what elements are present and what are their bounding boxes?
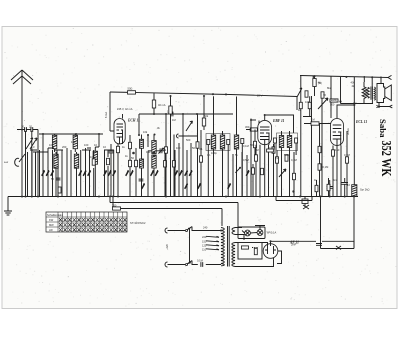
- svg-text:Spr 2kΩ: Spr 2kΩ: [360, 188, 369, 192]
- svg-text:0,2: 0,2: [275, 156, 279, 160]
- svg-text:2mF: 2mF: [291, 243, 297, 247]
- cathode resistor R12: [255, 155, 258, 161]
- transformer core: [228, 226, 230, 267]
- resistor R18b: [299, 102, 302, 108]
- svg-text:10k: 10k: [143, 130, 148, 134]
- ground bus wire: [8, 196, 358, 198]
- secondary heater winding: [232, 228, 242, 235]
- svg-text:100: 100: [84, 143, 89, 147]
- svg-text:LW: LW: [49, 228, 53, 232]
- padder capacitor C3: [51, 177, 60, 181]
- switch table: [46, 212, 127, 232]
- svg-text:ECL 11: ECL 11: [355, 120, 367, 124]
- IF transformer 2 box: [277, 133, 298, 151]
- svg-text:30mA: 30mA: [346, 128, 350, 135]
- resistor R6: [173, 135, 175, 197]
- svg-text:50p: 50p: [250, 143, 255, 147]
- svg-text:200: 200: [62, 145, 67, 149]
- svg-text:MW: MW: [49, 223, 54, 227]
- switch S2: [297, 88, 302, 97]
- svg-text:ST=1157HK2: ST=1157HK2: [130, 221, 146, 225]
- rectifier AZ11: [263, 244, 278, 259]
- resistor R29: [252, 168, 255, 174]
- AVC resistor R9: [196, 142, 199, 148]
- svg-text:220: 220: [202, 235, 207, 239]
- svg-text:EBF 11: EBF 11: [272, 119, 285, 123]
- svg-text:0,1: 0,1: [199, 147, 203, 151]
- svg-text:150: 150: [335, 148, 340, 152]
- dial lamp 2: [257, 230, 263, 236]
- dial lamp 1: [245, 230, 251, 236]
- wires left tops: [30, 134, 114, 152]
- svg-text:110: 110: [202, 248, 207, 252]
- verticals before EBF: [233, 119, 251, 197]
- svg-text:40k: 40k: [351, 81, 356, 85]
- svg-text:(E): (E): [353, 101, 357, 105]
- left coil L2: [54, 154, 58, 168]
- svg-text:ECH 11: ECH 11: [127, 119, 140, 123]
- resistor R10b: [200, 156, 203, 162]
- resistor R24: [346, 157, 349, 163]
- antenna lead wire: [21, 70, 23, 197]
- resistor R27 in box: [242, 246, 249, 249]
- IF1 primary coil L9: [211, 135, 215, 149]
- svg-text:100: 100: [305, 100, 310, 104]
- hum pot box: [238, 243, 262, 260]
- wire verticals mid: [175, 114, 191, 197]
- oscillator coil L7: [140, 159, 144, 168]
- antenna: [11, 70, 33, 84]
- rectifier anode feed: [235, 243, 274, 267]
- svg-text:100p: 100p: [269, 146, 275, 150]
- svg-text:100: 100: [49, 143, 54, 147]
- svg-text:100: 100: [53, 140, 58, 144]
- svg-text:4m: 4m: [333, 178, 337, 182]
- field coil zigzag: [362, 82, 366, 102]
- resistor R16: [313, 79, 321, 87]
- svg-text:300: 300: [245, 125, 250, 129]
- svg-text:245 V, 42 mA: 245 V, 42 mA: [117, 107, 133, 111]
- antenna capacitor C2: [28, 127, 35, 132]
- svg-text:100: 100: [146, 150, 151, 154]
- resistor R15: [285, 155, 288, 161]
- sub-bus wires below ground bus: [110, 197, 238, 228]
- resistor R17: [305, 91, 308, 97]
- svg-text:500: 500: [330, 103, 335, 107]
- IF2 coil L14: [287, 136, 291, 148]
- resistor R4: [129, 142, 132, 148]
- fuse X: [336, 246, 341, 250]
- resistor R7: [165, 147, 168, 153]
- svg-text:125: 125: [202, 244, 207, 248]
- svg-text:100: 100: [176, 146, 181, 150]
- resistor R2 dropping: [152, 100, 155, 108]
- EBF wiring loop to IF2: [265, 115, 294, 133]
- svg-text:8k2: 8k2: [327, 86, 332, 90]
- resistor R1 on rail: [128, 86, 136, 94]
- grid resistor R23: [318, 164, 328, 170]
- wire rail to tube: [110, 92, 114, 131]
- oscillator coil L6: [140, 139, 144, 148]
- left coil group L1: [52, 135, 56, 148]
- resistor R18: [321, 92, 324, 98]
- speaker: [377, 84, 385, 103]
- switch lever S1: [15, 154, 25, 166]
- speaker bottom wires: [341, 100, 390, 107]
- resistor R11: [250, 128, 257, 131]
- ECL leads: [333, 105, 354, 197]
- oscillator coil L8: [152, 141, 156, 154]
- resistor R33: [92, 159, 95, 165]
- resistor R32: [327, 184, 330, 190]
- resistor R8: [169, 106, 172, 114]
- resistor R13: [272, 147, 275, 153]
- svg-text:KW: KW: [49, 218, 54, 222]
- svg-text:100: 100: [71, 140, 76, 144]
- svg-text:0,1M: 0,1M: [243, 144, 249, 148]
- left coil L4: [74, 154, 78, 168]
- resistor R14: [276, 157, 279, 163]
- mains switch: [186, 230, 188, 232]
- svg-text:500: 500: [186, 138, 191, 142]
- wire drop from screen rail: [138, 114, 140, 135]
- wire below bus right: [276, 197, 312, 201]
- left coil L3: [73, 135, 77, 148]
- resistor R20 horizontal: [311, 118, 319, 126]
- svg-text:1M: 1M: [311, 118, 315, 122]
- wire tube anode up: [122, 114, 124, 119]
- wires left band section verticals: [28, 134, 114, 197]
- output stage top: vertical line: [353, 77, 355, 197]
- svg-text:40 mA: 40 mA: [158, 103, 166, 107]
- svg-text:1M: 1M: [255, 148, 259, 152]
- svg-text:6P/0,1A: 6P/0,1A: [267, 231, 276, 235]
- cathode resistor R21: [332, 150, 335, 156]
- secondary HT winding: [232, 243, 235, 267]
- mains cap C9: [201, 262, 203, 267]
- svg-text:0,1M: 0,1M: [291, 158, 297, 162]
- resistor R12b: [267, 149, 274, 152]
- IF2 coil L13: [279, 136, 283, 148]
- right bottom choke: [352, 185, 357, 197]
- svg-text:6 mA: 6 mA: [104, 112, 108, 118]
- resistor R25: [315, 185, 318, 191]
- svg-text:352 WK: 352 WK: [378, 141, 393, 177]
- svg-text:250: 250: [112, 204, 117, 208]
- tube ECH11 U1: [114, 119, 125, 145]
- resistor R2b: [58, 187, 61, 193]
- svg-text:Schaltkontakt: Schaltkontakt: [47, 213, 63, 217]
- IF2a detector coil L11: [234, 135, 238, 149]
- vertical from 28V network: [297, 76, 331, 197]
- IF2 trim caps: [273, 138, 276, 143]
- left coil L5: [93, 151, 97, 164]
- resistor R5: [129, 160, 132, 166]
- volume pot arrow: [235, 167, 240, 173]
- dial lamp box: [238, 227, 265, 239]
- resistor R19: [330, 99, 338, 102]
- plug arcs: [165, 228, 168, 267]
- wire node antenna row: [17, 130, 38, 197]
- svg-text:Saba: Saba: [378, 119, 388, 138]
- arrow connector top right: [388, 75, 392, 79]
- grid capacitor C5: [109, 151, 114, 153]
- resistor R28 in box: [254, 248, 257, 254]
- switch contacts row left: [42, 170, 45, 176]
- junction dot g1: [250, 119, 252, 121]
- resistor R26 250ohm: [113, 207, 121, 210]
- svg-text:~220: ~220: [165, 244, 169, 250]
- svg-text:5000: 5000: [284, 153, 290, 157]
- svg-text:150: 150: [202, 240, 207, 244]
- svg-text:a-w: a-w: [4, 161, 8, 164]
- connector X bottom right: [377, 105, 393, 108]
- antenna trimmer capacitor C1: [22, 127, 29, 132]
- IF1 trim caps: [207, 140, 210, 145]
- heater loop: [242, 235, 282, 264]
- padder capacitor C4: [139, 179, 144, 181]
- rectifier output wire: [271, 241, 355, 248]
- table X marks: [59, 218, 126, 231]
- svg-text:1M: 1M: [172, 118, 176, 122]
- output transformer primary: [371, 87, 372, 100]
- svg-text:28 V: 28 V: [257, 93, 263, 97]
- lamp wires: [242, 226, 265, 234]
- screen rail wire: [139, 113, 233, 115]
- svg-text:240: 240: [203, 226, 208, 230]
- resistor R11b: [254, 141, 257, 147]
- resistor R34: [107, 158, 110, 164]
- speaker top wire: [364, 77, 381, 87]
- svg-text:0,1M: 0,1M: [323, 165, 329, 169]
- svg-text:50k: 50k: [204, 114, 209, 118]
- svg-text:(M): (M): [318, 81, 322, 85]
- capacitor C6: [158, 148, 163, 154]
- tube ECL11 U3: [331, 119, 344, 146]
- svg-text:0,5M: 0,5M: [243, 158, 249, 162]
- HT feed wires right bottom: [321, 197, 355, 249]
- padder trimmer arrows mid: [126, 170, 129, 176]
- resistor R30: [261, 168, 264, 174]
- svg-text:50Ω: 50Ω: [128, 86, 133, 90]
- svg-text:0,1: 0,1: [207, 153, 211, 157]
- resistor R31: [293, 173, 296, 179]
- power transformer primary winding: [221, 228, 224, 266]
- svg-text:0,3M: 0,3M: [344, 153, 350, 157]
- top HT rail: [110, 92, 297, 97]
- svg-text:(EM4): (EM4): [330, 98, 337, 102]
- svg-text:100p: 100p: [211, 151, 217, 155]
- switch hashes right: [185, 183, 188, 189]
- mains lines: [168, 231, 186, 265]
- resistor R10: [202, 118, 205, 126]
- ground: [4, 197, 12, 216]
- electrolytic C7: [327, 180, 334, 197]
- junction dots speaker line: [339, 100, 341, 102]
- blob junction: [292, 190, 294, 192]
- IF1 secondary coil L10: [220, 135, 224, 149]
- resistor R18c: [308, 102, 311, 108]
- cap on HT: [316, 244, 322, 246]
- tube EBF11 U2: [258, 120, 272, 144]
- volume pot arrow 2: [279, 169, 286, 177]
- svg-text:0,1M: 0,1M: [197, 259, 203, 263]
- electrolytic C8: [342, 178, 349, 197]
- svg-text:50k: 50k: [162, 148, 167, 152]
- IF transformer 1 box: [206, 134, 230, 151]
- EBF leads down: [260, 145, 269, 197]
- cathode resistor R3: [117, 146, 120, 152]
- top right rail: [300, 76, 388, 78]
- switch S3 arrow: [318, 98, 328, 109]
- switch hashes mid: [175, 170, 178, 176]
- resistor R22: [318, 146, 321, 152]
